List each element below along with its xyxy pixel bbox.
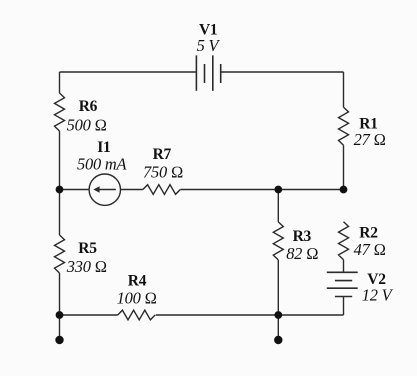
wire middle column upper	[277, 190, 279, 222]
svg-text:47 Ω: 47 Ω	[354, 240, 386, 259]
wire middle left segment	[60, 189, 90, 191]
wire top-left horizontal	[60, 71, 197, 73]
svg-text:500 Ω: 500 Ω	[67, 116, 107, 135]
node middle terminal	[274, 336, 282, 344]
wire left rail upper	[59, 72, 61, 93]
battery V1	[196, 55, 220, 90]
wire top-right horizontal	[221, 71, 344, 73]
wire left rail middle to R5	[59, 190, 61, 236]
node left terminal	[55, 336, 63, 344]
wire left rail to middle node	[59, 131, 61, 190]
wire bottom right segment	[156, 314, 344, 316]
resistor R2	[339, 222, 349, 260]
node middle junction	[274, 186, 282, 194]
resistor R4	[118, 310, 155, 320]
wire middle column lower	[277, 260, 279, 315]
wire stub middle terminal	[277, 315, 279, 337]
svg-text:100 Ω: 100 Ω	[117, 288, 157, 307]
wire I1 to R7	[121, 189, 143, 191]
wire right rail upper	[343, 72, 345, 107]
wire right rail to middle node	[343, 145, 345, 189]
svg-text:R3: R3	[293, 228, 312, 245]
wire left rail lower	[59, 273, 61, 315]
svg-text:82 Ω: 82 Ω	[286, 244, 318, 263]
node right junction	[340, 186, 348, 194]
svg-text:R7: R7	[153, 146, 172, 163]
svg-text:R4: R4	[128, 273, 147, 290]
resistor R1	[339, 107, 349, 145]
resistor R7	[143, 185, 180, 195]
svg-text:750 Ω: 750 Ω	[143, 163, 183, 182]
resistor R5	[55, 235, 65, 273]
resistor R3	[273, 222, 283, 260]
wire stub left terminal	[59, 315, 61, 337]
battery V2	[327, 272, 358, 296]
svg-text:330 Ω: 330 Ω	[66, 257, 107, 276]
wire R7 to right rail	[180, 189, 343, 191]
wire bottom left segment	[60, 314, 118, 316]
resistor R6	[55, 93, 65, 131]
svg-text:12 V: 12 V	[362, 285, 394, 304]
svg-text:R5: R5	[78, 240, 97, 257]
svg-text:27 Ω: 27 Ω	[354, 130, 386, 149]
node left-middle junction	[56, 186, 64, 194]
svg-text:5 V: 5 V	[197, 36, 221, 55]
svg-text:500 mA: 500 mA	[77, 155, 128, 174]
current source I1	[89, 174, 120, 205]
svg-text:R6: R6	[79, 98, 98, 115]
node bottom-left junction	[56, 311, 64, 319]
node bottom-middle junction	[274, 311, 282, 319]
wire V2 to bottom corner	[343, 297, 345, 316]
wire R2 to V2	[343, 260, 345, 273]
